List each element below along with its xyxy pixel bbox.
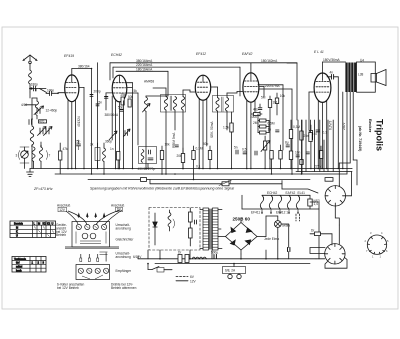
power dashed box (149, 208, 200, 251)
heater winding EAF42 (269, 195, 272, 209)
heater wiring top (242, 195, 319, 258)
output transformer T-out (345, 63, 356, 93)
cap+res x210 (208, 146, 211, 169)
svg-text:10k: 10k (165, 143, 171, 147)
wires into conn1 (66, 210, 122, 225)
cap 50p (120, 110, 123, 112)
cap 47p (258, 108, 262, 110)
pinout circle (367, 235, 386, 254)
svg-text:250B 60: 250B 60 (233, 217, 251, 222)
svg-text:PRIM 5mA: PRIM 5mA (172, 132, 176, 148)
svg-text:470: 470 (39, 119, 45, 123)
svg-text:1,4: 1,4 (314, 202, 319, 206)
misc caps row (77, 130, 320, 157)
IF T1 coil b (181, 90, 190, 169)
svg-text:240V: 240V (342, 122, 346, 130)
svg-text:Bereich: Bereich (14, 221, 23, 225)
svg-text:180/162mA: 180/162mA (261, 59, 278, 63)
svg-text:0,5: 0,5 (242, 148, 247, 152)
sec wires from output transformer (339, 92, 357, 186)
svg-text:380/164mA: 380/164mA (136, 59, 153, 63)
rail to EL41 (287, 62, 346, 63)
svg-text:20k: 20k (177, 154, 183, 158)
svg-text:180/164mA: 180/164mA (136, 67, 153, 71)
box 12V (58, 207, 67, 211)
svg-text:Betrieb: Betrieb (56, 233, 66, 237)
svg-text:Tonblende: Tonblende (14, 257, 27, 261)
volume pot (261, 136, 270, 169)
res 40 V5 cathode (309, 125, 312, 169)
antenna coil L1 (29, 70, 32, 88)
svg-text:491324: 491324 (77, 116, 81, 127)
vibrator socket X1 (325, 186, 345, 206)
cap 200p (90, 95, 93, 97)
tiny labels top row (16, 58, 390, 290)
svg-text:430/69 270p: 430/69 270p (138, 167, 156, 171)
svg-text:5n: 5n (99, 101, 103, 105)
svg-text:1M: 1M (273, 101, 278, 105)
table texts (14, 221, 54, 272)
svg-text:5k: 5k (134, 89, 138, 93)
res 10k (275, 98, 278, 104)
speaker box (357, 62, 387, 92)
tube V2 ECH42 (106, 75, 132, 168)
svg-text:8µ: 8µ (285, 141, 289, 145)
svg-text:200p: 200p (94, 90, 101, 94)
wire bus B (55, 173, 347, 175)
wire D with fuse A (150, 180, 282, 186)
HT rail 1 (110, 63, 297, 120)
screen wire V1 (84, 63, 98, 169)
chokes Dr on lower bus (178, 255, 206, 263)
input switch S1 (30, 88, 47, 93)
fuse holder box (223, 264, 246, 279)
legend 6V/12V (176, 277, 188, 281)
heater winding EBF (278, 195, 281, 209)
res 0.1M x193.5 (192, 146, 195, 180)
osc coil L5 (143, 96, 169, 169)
cable socket X2 (325, 244, 345, 264)
resistor R2 (59, 151, 62, 160)
svg-text:Gleichrichter: Gleichrichter (116, 238, 135, 242)
heater winding ECH42 (260, 195, 263, 209)
heater winding EL41 (287, 195, 290, 209)
brackets around band coils (19, 151, 48, 160)
res NS3 (308, 199, 312, 206)
trimmer K10 (25, 105, 44, 115)
svg-text:anordnung: anordnung (116, 255, 131, 259)
band coil L4 (39, 142, 42, 169)
svg-text:EL41: EL41 (298, 191, 306, 195)
AVC line (259, 89, 292, 174)
lamp wires (243, 216, 278, 237)
svg-text:EF411: EF411 (251, 210, 260, 214)
wire bus A (30, 168, 352, 170)
svg-text:1,5k: 1,5k (223, 126, 229, 130)
svg-text:ECH42: ECH42 (111, 53, 122, 57)
res x118 (117, 152, 120, 169)
svg-text:Betrieb abtrennen: Betrieb abtrennen (111, 286, 137, 290)
res 25k (121, 97, 124, 105)
res 1M (268, 100, 271, 108)
svg-text:3: 3 (16, 154, 18, 158)
osc section V2 (109, 83, 138, 169)
tube pin wires V3 (199, 99, 207, 169)
connector block lower (76, 252, 110, 280)
HT rail 3 (116, 71, 168, 96)
svg-text:0,1: 0,1 (196, 165, 201, 169)
res 10k x162 (160, 146, 163, 174)
switch on stem (148, 264, 172, 272)
bridge rectifier (218, 218, 266, 254)
svg-text:360p: 360p (105, 140, 112, 144)
tube V4 EAF42 (237, 63, 264, 169)
svg-text:M: M (38, 221, 40, 225)
svg-text:10n: 10n (295, 151, 301, 155)
tube V3 EF41 (190, 75, 215, 168)
coupling caps V5 (309, 75, 338, 169)
svg-text:10k: 10k (280, 94, 286, 98)
res x321 (319, 146, 322, 169)
svg-text:Becker: Becker (368, 119, 373, 133)
svg-text:EF419: EF419 (64, 54, 74, 58)
svg-text:25n: 25n (304, 134, 310, 138)
capacitor 180p (30, 86, 36, 98)
coil L2 (30, 98, 33, 169)
svg-text:EAF42: EAF42 (242, 52, 252, 56)
cap 500u (214, 224, 290, 259)
svg-text:U: U (52, 221, 54, 225)
IF T1 coil a (153, 88, 186, 174)
component row above bus: coil+box x95-108 (95, 143, 106, 174)
svg-text:Empfänger: Empfänger (116, 269, 133, 273)
svg-text:2k: 2k (90, 143, 94, 147)
svg-text:12V: 12V (190, 279, 197, 283)
svg-text:U: U (16, 234, 18, 238)
svg-text:0,3M: 0,3M (293, 125, 300, 129)
cap 100p (46, 91, 58, 96)
resistor 470 (39, 120, 47, 123)
coil L2a (32, 98, 39, 119)
svg-text:25k: 25k (121, 93, 127, 97)
tube V5 EL41 (309, 62, 331, 169)
svg-text:47k: 47k (63, 147, 69, 151)
Dr choke top right (310, 232, 332, 245)
svg-text:47p: 47p (253, 108, 259, 112)
tube pin wires V1 (68, 101, 76, 169)
power transformer T1 (200, 208, 222, 250)
tube pin wires V4 (247, 101, 255, 169)
svg-text:227V: 227V (314, 165, 322, 169)
svg-text:6/12V: 6/12V (133, 255, 142, 259)
svg-text:E L 41: E L 41 (314, 50, 324, 54)
svg-text:380/164: 380/164 (78, 65, 90, 69)
svg-text:anordnung: anordnung (116, 226, 131, 230)
vertical title Tripolis (358, 119, 385, 152)
svg-text:50p: 50p (203, 142, 209, 146)
cap 14p (29, 120, 32, 125)
svg-text:L38: L38 (358, 73, 364, 77)
svg-text:0,5M: 0,5M (268, 122, 275, 126)
svg-text:ZF=473 kHz: ZF=473 kHz (33, 187, 53, 191)
svg-text:500µ: 500µ (211, 251, 218, 255)
trimmer x126 (124, 129, 131, 137)
grid cap V2 (105, 93, 108, 110)
HT rail 2 (113, 67, 240, 96)
svg-text:2M: 2M (253, 121, 258, 125)
svg-text:K: K (16, 230, 18, 234)
fuse F1 on bus C (141, 178, 147, 182)
wire bus C (88, 179, 310, 181)
svg-text:EF412: EF412 (196, 52, 206, 56)
wire R2 (59, 143, 61, 174)
res x280.5 (279, 145, 282, 169)
svg-text:EF412 1: EF412 1 (276, 210, 288, 214)
svg-text:100k: 100k (250, 115, 257, 119)
pin labels circle3 (365, 231, 390, 259)
table 1 (10, 221, 56, 238)
svg-text:4/10: 4/10 (21, 103, 27, 107)
svg-text:100p: 100p (47, 89, 54, 93)
wires into vib socket (282, 172, 352, 225)
svg-text:180p: 180p (31, 82, 38, 86)
svg-text:7: 7 (49, 154, 51, 158)
svg-text:1n: 1n (268, 128, 272, 132)
cap 5n (96, 104, 99, 106)
svg-text:0,1: 0,1 (323, 131, 328, 135)
svg-text:mittel: mittel (16, 265, 23, 269)
IF T2 (213, 87, 238, 169)
svg-text:Skala: Skala (282, 224, 290, 228)
svg-text:6/8, 2A: 6/8, 2A (225, 269, 236, 273)
res x271.5 (270, 151, 273, 175)
table 2 (12, 257, 46, 273)
svg-text:180V/36mA: 180V/36mA (323, 58, 341, 62)
svg-text:6,3V/3: 6,3V/3 (329, 121, 333, 130)
verticals dropping to heater bus (296, 120, 352, 174)
trimmer pair (38, 127, 53, 136)
svg-text:50p: 50p (118, 106, 124, 110)
svg-text:(ab Nr. 719449): (ab Nr. 719449) (358, 126, 362, 152)
svg-text:25p: 25p (75, 140, 81, 144)
res pair in box (189, 208, 197, 246)
dashed 6V wires (296, 214, 300, 221)
svg-text:bei 12V Betrieb: bei 12V Betrieb (57, 286, 79, 290)
diode D1 (153, 213, 157, 245)
connector block upper (65, 222, 119, 249)
res 20k x183 (181, 148, 184, 169)
choke in box (168, 210, 175, 231)
svg-text:K1: K1 (43, 221, 47, 225)
wire to socket2 (310, 225, 347, 268)
res x291 upper (289, 120, 292, 169)
svg-text:Spannungsangaben mit Röhrenvol: Spannungsangaben mit Röhrenvoltmeter (Me… (90, 187, 234, 191)
tube pin wires V5 (318, 101, 326, 169)
svg-text:K2: K2 (47, 221, 51, 225)
box assembly x138-157 (139, 147, 157, 169)
svg-text:SEK. 50mA: SEK. 50mA (210, 121, 214, 138)
svg-text:Tripolis: Tripolis (375, 119, 385, 151)
lower bus 6/12V (138, 236, 316, 264)
svg-text:M: M (16, 225, 18, 229)
res 50k (128, 99, 131, 107)
svg-text:Jede Elma: Jede Elma (264, 237, 279, 241)
svg-text:4n: 4n (330, 71, 334, 75)
svg-text:AM458: AM458 (144, 80, 154, 84)
svg-text:1n: 1n (110, 147, 114, 151)
svg-text:12-460p: 12-460p (46, 109, 58, 113)
antenna (23, 55, 37, 70)
heater winding EF41b (296, 195, 299, 209)
svg-text:50k: 50k (128, 95, 134, 99)
svg-text:380/164A: 380/164A (105, 113, 120, 117)
res chain under V4 (251, 113, 269, 135)
res x310.5 upper (309, 120, 312, 142)
svg-text:12V: 12V (59, 208, 66, 212)
res x301.5 pair (300, 120, 303, 174)
res 1.5k cathode V4 (230, 112, 233, 169)
svg-text:Ü4: Ü4 (360, 59, 364, 63)
svg-text:EAF42: EAF42 (286, 191, 296, 195)
svg-text:ECH42: ECH42 (267, 191, 278, 195)
detector cluster right of V4 (258, 85, 283, 169)
svg-text:5M: 5M (261, 96, 266, 100)
svg-text:220/57mA: 220/57mA (265, 84, 280, 88)
svg-text:hoch: hoch (16, 268, 22, 272)
ground (27, 169, 34, 177)
svg-text:0,1M: 0,1M (196, 147, 203, 151)
svg-text:tief: tief (16, 261, 20, 265)
variable cap C-var (20, 147, 29, 169)
heater stubs (261, 209, 298, 214)
scale lamp (274, 216, 281, 232)
fuse F2 on bus B (325, 178, 333, 182)
tube pin wires V2 (116, 101, 124, 169)
svg-text:5n: 5n (234, 146, 238, 150)
tube V1 EF41 (58, 69, 84, 169)
svg-text:40: 40 (314, 132, 318, 136)
band coil L3 (32, 147, 35, 169)
box 6V (116, 207, 123, 211)
anode wire V1 (72, 69, 92, 175)
